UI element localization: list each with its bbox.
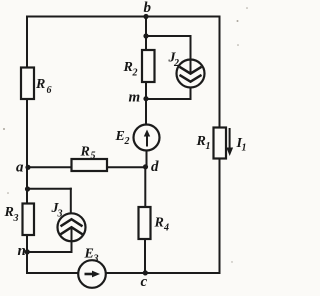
node a [16, 159, 31, 175]
svg-text:R: R [35, 77, 45, 92]
wire a to R5 [28, 166, 72, 168]
svg-text:6: 6 [47, 85, 52, 96]
svg-text:2: 2 [124, 136, 130, 147]
EMF source E3 [78, 247, 106, 288]
svg-text:3: 3 [57, 209, 63, 220]
wire R2 branch upper [145, 36, 147, 50]
svg-text:1: 1 [206, 141, 211, 152]
resistor R6 [21, 68, 52, 100]
current source J3 [51, 201, 86, 241]
svg-text:5: 5 [91, 151, 96, 162]
wire loop2 bottom m [146, 98, 191, 100]
wire loop3 J3 branch upper [70, 189, 72, 214]
svg-text:R: R [196, 134, 206, 149]
node c [141, 270, 148, 290]
junction top of R2/J2 loop [143, 33, 148, 38]
svg-text:3: 3 [93, 254, 99, 265]
svg-text:2: 2 [132, 68, 138, 79]
wire left rail middle [26, 99, 28, 204]
resistor R1 [196, 128, 227, 159]
svg-text:E: E [115, 129, 125, 144]
wire top b rail [27, 16, 220, 18]
svg-text:b: b [144, 0, 152, 16]
svg-text:1: 1 [242, 143, 247, 154]
wire loop3 top [28, 188, 71, 190]
wire loop2 top [146, 35, 191, 37]
wire loop3 J3 branch lower [71, 241, 73, 252]
wire b stub [145, 17, 147, 37]
scan specks [3, 7, 248, 262]
wire m to E2 [145, 99, 147, 125]
wire d to R4 [144, 167, 146, 207]
current arrow I1 [226, 128, 246, 156]
resistor R3 [4, 204, 35, 236]
node b [143, 0, 151, 19]
wire right rail upper [219, 17, 221, 128]
wire left rail upper [26, 17, 28, 68]
svg-text:a: a [16, 159, 24, 175]
svg-text:d: d [151, 159, 159, 175]
resistor R4 [139, 207, 170, 239]
resistor R5 [72, 145, 108, 172]
junction top of R3/J3 loop [25, 186, 30, 191]
node m [129, 89, 149, 105]
wire bottom right [106, 272, 220, 274]
svg-text:R: R [80, 145, 90, 160]
wire bottom left [27, 272, 78, 274]
svg-text:m: m [129, 89, 141, 105]
node d [143, 159, 159, 175]
wire R4 to c [144, 239, 146, 273]
svg-text:R: R [123, 60, 133, 75]
wire J2 branch upper [190, 36, 192, 60]
svg-text:n: n [18, 243, 26, 259]
wire left rail lower [26, 235, 28, 273]
svg-text:2: 2 [173, 58, 179, 69]
wire loop3 bottom n [27, 251, 72, 253]
svg-text:3: 3 [13, 213, 19, 224]
svg-text:4: 4 [163, 223, 169, 234]
svg-text:R: R [4, 205, 14, 220]
EMF source E2 [115, 125, 160, 151]
svg-text:R: R [154, 216, 164, 231]
wire right rail lower [219, 159, 221, 274]
wire R2 branch lower [145, 82, 147, 99]
wire J2 branch lower [190, 88, 192, 100]
wire E2 to d [146, 151, 148, 167]
node n [18, 243, 30, 259]
svg-text:c: c [141, 274, 148, 290]
current source J2 [168, 51, 205, 88]
svg-text:E: E [84, 247, 94, 262]
resistor R2 [123, 50, 155, 82]
wire R5 to d [107, 166, 146, 168]
